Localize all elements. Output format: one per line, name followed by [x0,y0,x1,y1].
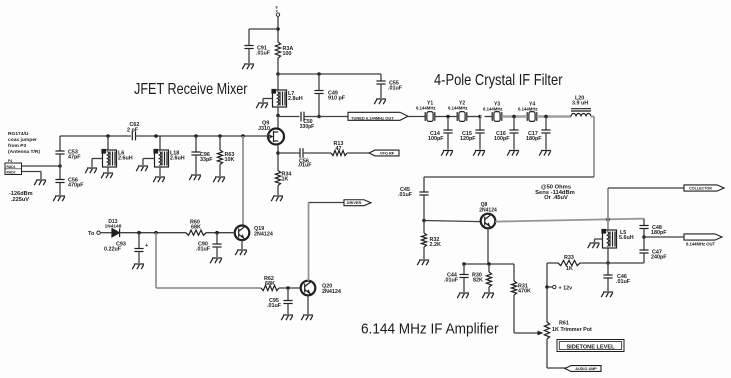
svg-text:J310: J310 [258,126,270,132]
svg-text:.01uF: .01uF [267,303,282,309]
svg-text:47: 47 [336,146,342,152]
svg-text:6.144MHz: 6.144MHz [416,105,436,110]
svg-text:470K: 470K [518,289,531,295]
svg-text:(Antenna T/R): (Antenna T/R) [8,149,40,155]
svg-text:3.9 uH: 3.9 uH [572,101,588,107]
svg-text:.225uV: .225uV [11,197,29,203]
svg-text:.01uF: .01uF [298,163,313,169]
svg-text:2N4124: 2N4124 [479,207,497,213]
svg-text:47pF: 47pF [68,155,81,161]
svg-text:v: v [276,9,278,13]
svg-text:2.8uH: 2.8uH [288,96,303,102]
svg-text:+ 12v: + 12v [559,286,573,292]
svg-text:coax jumper: coax jumper [8,137,37,143]
svg-text:2 pF: 2 pF [127,128,139,134]
svg-text:VFO RF: VFO RF [380,150,395,155]
svg-text:82K: 82K [473,278,483,284]
svg-text:DRIVER: DRIVER [347,200,362,205]
svg-text:SIDETONE LEVEL: SIDETONE LEVEL [566,344,615,350]
svg-text:Or .45uV: Or .45uV [544,195,568,201]
svg-text:6.144MHz OUT: 6.144MHz OUT [686,242,716,247]
svg-text:2.2K: 2.2K [430,242,441,248]
svg-text:100pF: 100pF [428,136,444,142]
svg-text:2N4124: 2N4124 [254,231,273,237]
svg-text:2N4124: 2N4124 [322,289,341,295]
svg-text:2.6uH: 2.6uH [170,156,185,162]
svg-text:TUNED 6.144MHz OUT: TUNED 6.144MHz OUT [351,116,394,121]
svg-text:from P3: from P3 [8,143,26,149]
svg-text:6.144MHz: 6.144MHz [448,105,468,110]
svg-text:P4: P4 [8,159,12,163]
svg-text:33pF: 33pF [200,157,213,163]
svg-text:6.144 MHz IF Amplifier: 6.144 MHz IF Amplifier [361,322,499,338]
svg-text:R61: R61 [559,321,569,327]
svg-text:.01uF: .01uF [616,279,631,285]
svg-text:1N4148: 1N4148 [105,224,122,230]
svg-text:JFET Receive Mixer: JFET Receive Mixer [134,81,248,98]
svg-text:RG174/U: RG174/U [8,131,29,137]
svg-text:5.6uH: 5.6uH [619,235,634,241]
svg-text:+: + [145,243,148,249]
svg-text:.01uF: .01uF [444,278,459,284]
svg-text:100pF: 100pF [494,136,510,142]
svg-text:0.22uF: 0.22uF [104,247,122,253]
svg-text:6.144MHz: 6.144MHz [518,106,538,111]
svg-text:2.6uH: 2.6uH [118,156,133,162]
svg-text:910 pF: 910 pF [328,96,346,102]
svg-text:COLLECTOR: COLLECTOR [689,186,712,190]
svg-text:470pF: 470pF [68,183,84,189]
svg-text:68K: 68K [265,281,275,287]
svg-text:1K: 1K [566,266,573,272]
svg-text:RAD1: RAD1 [7,165,16,169]
svg-text:68K: 68K [191,225,201,231]
svg-text:1K: 1K [282,177,289,183]
svg-text:100: 100 [283,51,292,57]
svg-text:.01uF: .01uF [196,247,211,253]
svg-text:180pF: 180pF [526,136,542,142]
svg-text:.01uF: .01uF [388,86,403,92]
svg-text:180pF: 180pF [651,230,667,236]
svg-text:R33: R33 [564,255,574,261]
svg-text:RAD2: RAD2 [7,170,16,174]
svg-text:240pF: 240pF [651,255,667,261]
svg-text:To: To [88,231,95,237]
svg-text:.01uF: .01uF [398,192,413,198]
svg-text:1K Trimmer Pot: 1K Trimmer Pot [552,327,592,333]
svg-text:4-Pole Crystal IF Filter: 4-Pole Crystal IF Filter [434,72,563,89]
svg-text:AUDIO AMP: AUDIO AMP [575,367,597,371]
svg-text:6.144MHz: 6.144MHz [483,106,503,111]
svg-text:330pF: 330pF [300,124,314,130]
svg-text:10K: 10K [225,157,235,163]
svg-text:120pF: 120pF [460,136,476,142]
svg-text:.01uF: .01uF [256,51,271,57]
